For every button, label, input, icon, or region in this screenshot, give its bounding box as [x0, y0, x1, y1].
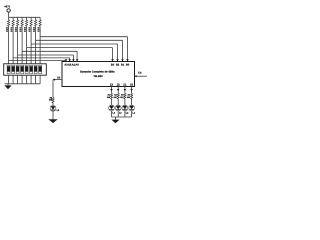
wire R4 to LED L1 — [131, 99, 133, 105]
wire switch pin 7 to ground bus — [35, 75, 37, 84]
pin Σ3 output wire — [110, 87, 113, 94]
svg-text:330: 330 — [114, 96, 117, 99]
wire LED L0 to ground — [52, 111, 54, 120]
wire tap resistor R6 to IC input pin — [31, 44, 119, 61]
power terminal +5V — [4, 4, 10, 17]
svg-text:A0: A0 — [75, 64, 79, 67]
wire resistor R1 to switch column — [8, 26, 10, 64]
svg-text:330: 330 — [127, 96, 130, 99]
resistor R3 10k pull-up — [15, 17, 19, 32]
svg-text:330: 330 — [120, 96, 123, 99]
wire resistor R3 to switch column — [17, 26, 19, 64]
ground (LED L0) — [48, 119, 57, 123]
resistor R5 10k pull-up — [24, 17, 28, 32]
wire ground bus under switch — [5, 83, 41, 85]
wire switch pin 1 to ground bus — [8, 75, 10, 84]
svg-text:330: 330 — [107, 96, 110, 99]
pin Σ1 output wire — [124, 87, 127, 94]
pin Σ0 output wire — [130, 87, 133, 94]
wire switch pin 2 to ground bus — [12, 75, 14, 84]
ground (LED bank) — [111, 117, 119, 123]
wire LED L2 to ground bus — [124, 111, 126, 117]
pin Σ2 output wire — [117, 87, 120, 94]
wire resistor R6 to switch column — [30, 26, 32, 64]
resistor R4 330 — [127, 93, 133, 99]
LED L1 — [129, 105, 136, 115]
svg-text:74LS83: 74LS83 — [93, 75, 103, 78]
svg-text:C4: C4 — [138, 72, 142, 75]
wire tap resistor R4 to IC input pin — [22, 51, 78, 61]
ground (switch bank) — [4, 84, 11, 90]
wire switch pin 5 to ground bus — [26, 75, 28, 84]
wire resistor R7 to switch column — [35, 26, 37, 64]
wire switch pin 6 to ground bus — [30, 75, 32, 84]
LED L0 — [50, 105, 60, 112]
pin C0 carry in wire — [53, 79, 62, 98]
wire switch pin 4 to ground bus — [21, 75, 23, 84]
wire LED L4 to ground bus — [111, 111, 113, 117]
wire resistor R5 to switch column — [26, 26, 28, 64]
wire tap resistor R2 to IC input pin — [13, 58, 71, 62]
wire R9 to LED L0 — [52, 103, 54, 105]
resistor R7 10k pull-up — [33, 17, 37, 32]
wire tap resistor R3 to IC input pin — [18, 55, 75, 61]
pin C4 carry out — [135, 75, 148, 77]
svg-text:B3: B3 — [111, 64, 115, 67]
IC U1 74LS83 4-bit full adder — [57, 62, 142, 87]
resistor R3 330 — [120, 93, 126, 99]
wire switch pin 8 to ground bus — [39, 75, 41, 84]
LED L3 — [115, 105, 122, 115]
resistor R4 10k pull-up — [20, 17, 24, 32]
wire LED L3 to ground bus — [117, 111, 119, 117]
svg-text:Sumador Completo de 4Bits: Sumador Completo de 4Bits — [80, 71, 115, 74]
DIP switch SW1 (8-way) — [4, 64, 47, 75]
wire resistor R8 to switch column — [39, 26, 41, 64]
svg-text:+5 V: +5 V — [4, 4, 10, 8]
svg-text:330: 330 — [49, 99, 52, 102]
wire LED L1 to ground bus — [131, 111, 133, 117]
resistor R9 330 (C0 LED) — [49, 96, 54, 103]
wire +5V bus — [9, 16, 40, 18]
wire R3 to LED L2 — [124, 99, 126, 105]
resistor R1 330 — [107, 93, 113, 99]
wire ground bus (LEDs) — [112, 116, 132, 118]
resistor R2 10k pull-up — [11, 17, 15, 32]
resistor R1 10k pull-up — [6, 17, 10, 32]
LED L2 — [122, 105, 129, 115]
wire switch pin 3 to ground bus — [17, 75, 19, 84]
wire resistor R4 to switch column — [21, 26, 23, 64]
wire R1 to LED L4 — [111, 99, 113, 105]
svg-text:B1: B1 — [121, 64, 125, 67]
resistor R8 10k pull-up — [38, 17, 42, 32]
resistor R2 330 — [114, 93, 120, 99]
wire tap resistor R8 to IC input pin — [40, 37, 129, 62]
LED L4 — [109, 105, 116, 115]
svg-text:B0: B0 — [126, 64, 130, 67]
svg-text:B2: B2 — [116, 64, 120, 67]
svg-text:C0: C0 — [57, 76, 61, 79]
resistor R6 10k pull-up — [29, 17, 33, 32]
wire tap resistor R1 to IC input pin — [9, 59, 68, 61]
wire tap resistor R5 to IC input pin — [27, 48, 114, 62]
wire tap resistor R7 to IC input pin — [36, 40, 124, 61]
wire resistor R2 to switch column — [12, 26, 14, 64]
wire R2 to LED L3 — [117, 99, 119, 105]
